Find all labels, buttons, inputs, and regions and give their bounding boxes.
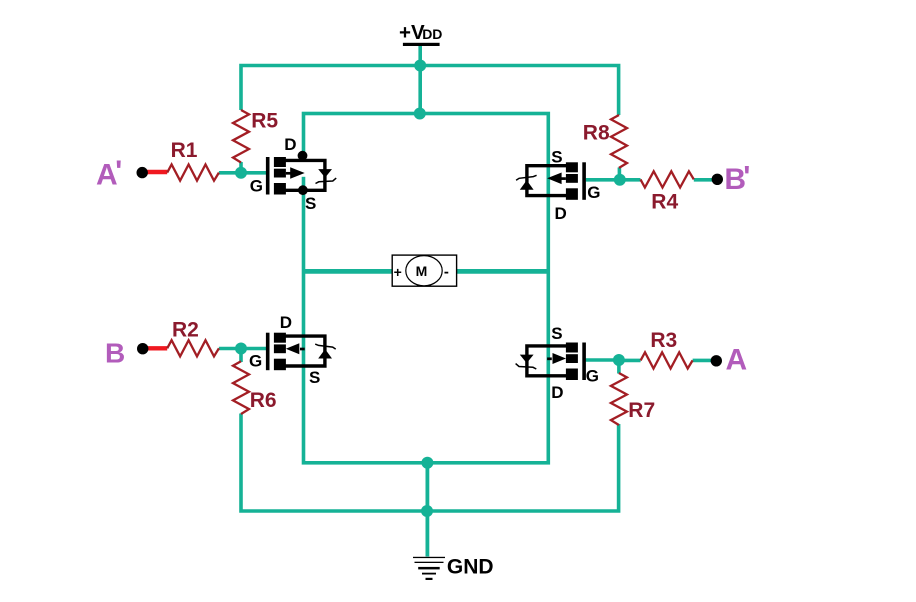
- wire bridge frame: [304, 114, 549, 463]
- svg-text:R6: R6: [250, 389, 277, 412]
- svg-text:D: D: [284, 135, 296, 154]
- wire R3 leads: [619, 359, 716, 363]
- svg-text:S: S: [305, 194, 316, 213]
- svg-text:G: G: [250, 177, 263, 196]
- wire motor left: [304, 269, 394, 274]
- junction inner bottom rail: [421, 457, 433, 469]
- svg-text:D: D: [555, 204, 567, 223]
- ground: [413, 556, 494, 581]
- svg-text:S: S: [551, 324, 562, 343]
- svg-text:DD: DD: [422, 26, 442, 42]
- wire bottom rail: [241, 414, 619, 512]
- wire +VDD stub: [418, 46, 422, 114]
- resistor R6: [233, 361, 277, 414]
- svg-text:D: D: [551, 383, 563, 402]
- svg-text:A: A: [726, 343, 748, 376]
- junction gate A': [235, 167, 247, 179]
- resistor R2: [167, 318, 219, 356]
- svg-text:+: +: [394, 264, 402, 280]
- svg-text:R5: R5: [251, 110, 278, 133]
- wire R6 upper stub: [239, 349, 243, 363]
- svg-text:GND: GND: [447, 556, 494, 579]
- svg-text:G: G: [586, 367, 599, 386]
- svg-text:': ': [743, 161, 750, 194]
- junction gate A: [613, 354, 625, 366]
- transistor Q4 (bottom-right): [516, 324, 599, 402]
- resistor R1: [167, 139, 219, 181]
- wire gate row B: [219, 347, 266, 351]
- svg-text:B: B: [105, 337, 125, 368]
- svg-text:S: S: [551, 147, 562, 166]
- svg-text:': ': [115, 155, 122, 188]
- svg-text:G: G: [587, 183, 600, 202]
- svg-text:S: S: [309, 368, 320, 387]
- wire R4 leads: [620, 178, 718, 182]
- transistor Q1 (top-left): [250, 135, 336, 213]
- svg-text:R8: R8: [583, 122, 610, 145]
- resistor R7: [611, 373, 655, 425]
- wire R5 lower stub: [239, 162, 243, 173]
- svg-text:R1: R1: [171, 139, 198, 162]
- resistor R3: [641, 329, 693, 369]
- node B: [105, 337, 148, 368]
- wire +VDD top rail: [241, 66, 619, 116]
- svg-text:R4: R4: [651, 191, 678, 214]
- svg-text:R3: R3: [650, 329, 677, 352]
- svg-text:-: -: [444, 264, 449, 281]
- svg-text:+V: +V: [399, 21, 425, 44]
- wire motor right: [457, 269, 549, 274]
- svg-text:R2: R2: [172, 318, 199, 341]
- junction gate B': [614, 174, 626, 186]
- wire gate row A': [219, 171, 266, 175]
- node B': [712, 161, 751, 197]
- node A': [96, 155, 148, 191]
- wire R8 lower stub: [618, 168, 622, 181]
- motor M: [392, 255, 456, 286]
- wire R7 upper stub: [617, 360, 621, 374]
- svg-text:M: M: [416, 263, 428, 279]
- wire red lead B: [143, 346, 168, 350]
- wire gate row B': [586, 178, 620, 182]
- resistor R8: [583, 115, 627, 168]
- junction VDD top rail: [414, 60, 426, 72]
- resistor R4: [641, 171, 694, 213]
- node A: [711, 343, 748, 376]
- junction gate B: [235, 343, 247, 355]
- resistor R5: [233, 110, 278, 163]
- transistor Q2 (top-right): [516, 147, 600, 223]
- wire gate row A: [583, 358, 619, 362]
- junction VDD inner rail: [414, 108, 426, 120]
- power +VDD: [399, 21, 442, 46]
- svg-text:G: G: [249, 352, 262, 371]
- svg-text:D: D: [280, 313, 292, 332]
- junction bottom rail: [421, 505, 433, 517]
- wire red lead A': [142, 170, 167, 174]
- wire GND drop: [425, 463, 429, 557]
- transistor Q3 (bottom-left): [249, 313, 336, 387]
- svg-text:R7: R7: [628, 399, 655, 422]
